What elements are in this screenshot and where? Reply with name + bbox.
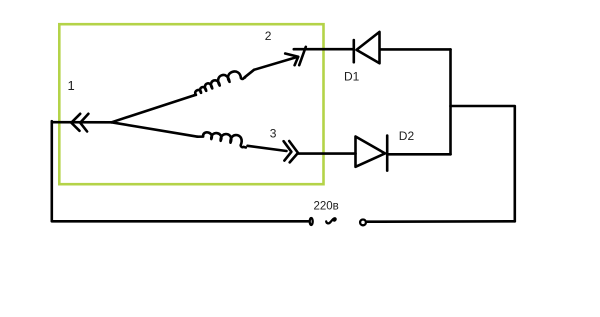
svg-text:220в: 220в (314, 201, 339, 213)
svg-text:3: 3 (270, 127, 277, 141)
svg-text:D2: D2 (399, 129, 415, 143)
svg-text:1: 1 (68, 78, 75, 93)
svg-text:D1: D1 (344, 70, 360, 84)
svg-text:2: 2 (265, 29, 272, 43)
